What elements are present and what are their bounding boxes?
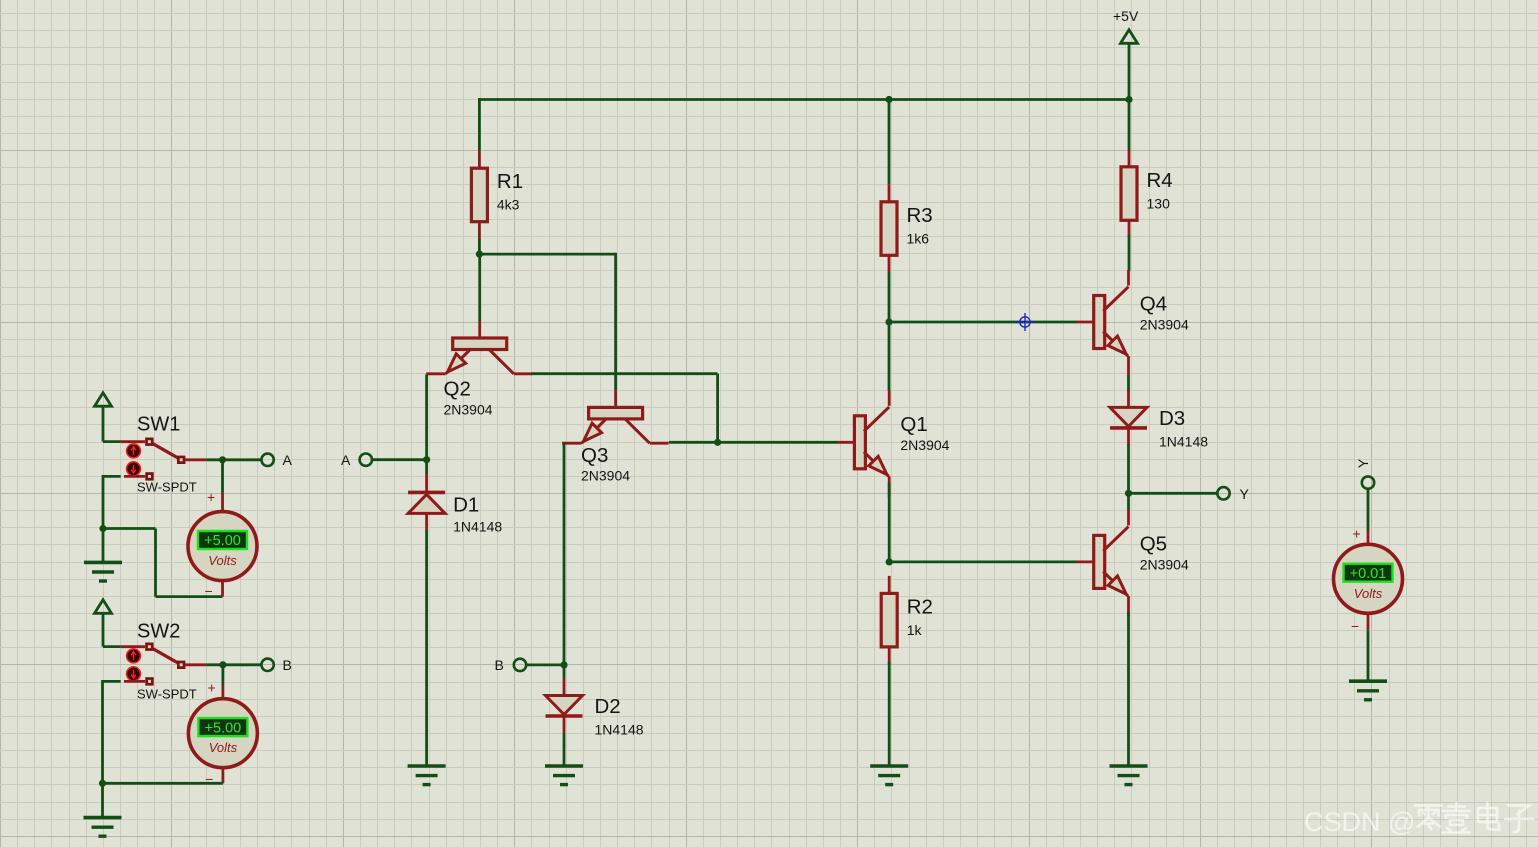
wire SW2 lower throw to ground column <box>103 680 121 683</box>
svg-text:A: A <box>283 452 293 468</box>
svg-text:Q4: Q4 <box>1140 293 1167 316</box>
wire down to base node junction <box>716 374 719 443</box>
ground under D2 <box>545 766 583 785</box>
svg-text:1k: 1k <box>907 622 923 638</box>
wire rail to R3 <box>888 100 891 185</box>
wire B node down to D2 <box>563 665 566 679</box>
switch SW2 SW-SPDT <box>121 621 207 702</box>
voltmeter output Y <box>1334 544 1403 613</box>
junction R1 / Q2 / Q3 base node <box>476 251 483 258</box>
terminal at right voltmeter <box>1362 476 1374 488</box>
pin meter2 minus (red) <box>221 768 224 784</box>
wire meter2 plus <box>221 665 224 685</box>
svg-text:CSDN @: CSDN @ <box>1304 807 1415 837</box>
svg-text:+: + <box>208 680 216 696</box>
junction SW2 / voltmeter2 <box>219 661 226 668</box>
wire Y node down to Q5 collector <box>1127 493 1130 510</box>
svg-text:R3: R3 <box>907 204 933 227</box>
terminal A (SW1 output) <box>261 454 273 466</box>
svg-text:Q5: Q5 <box>1140 532 1167 555</box>
svg-text:SW1: SW1 <box>137 414 180 436</box>
svg-text:2N3904: 2N3904 <box>900 437 949 453</box>
svg-text:2N3904: 2N3904 <box>581 468 630 484</box>
pin meter3 plus (red) <box>1367 530 1370 545</box>
wire node to Q3 column <box>479 253 615 256</box>
wire down to Q3 top pin <box>614 253 617 391</box>
svg-text:D3: D3 <box>1159 407 1185 430</box>
transistor Q5 <box>1076 510 1189 617</box>
svg-text:+: + <box>1353 526 1361 542</box>
svg-text:1k6: 1k6 <box>907 230 930 246</box>
pin meter2 plus (red) <box>221 685 224 699</box>
terminal Y (gate output) <box>1217 487 1229 499</box>
arrow SW2 <box>95 600 112 614</box>
svg-text:−: − <box>1351 618 1359 634</box>
wire supply to SW1 top throw <box>103 440 121 443</box>
svg-text:Q2: Q2 <box>444 378 471 401</box>
wire D2 to ground <box>563 733 566 766</box>
wire D3 to Y node <box>1127 444 1130 493</box>
wire node down to Q2 top pin <box>478 254 481 321</box>
wire meter1 return L-path <box>156 595 223 598</box>
resistor R3 1k6 <box>881 184 933 272</box>
svg-text:+: + <box>207 489 215 505</box>
wire +5V to R4 <box>1128 100 1131 151</box>
wire supply to SW2 top throw <box>103 645 121 648</box>
junction rail / R3 <box>885 96 892 103</box>
svg-text:SW2: SW2 <box>137 621 180 643</box>
wire D1 to ground <box>425 530 428 766</box>
wire node to Q4 base <box>889 321 1077 324</box>
junction B / D2 <box>560 661 567 668</box>
svg-text:+5.00: +5.00 <box>204 533 241 549</box>
junction R3 / Q1 collector / Q4 base <box>885 318 892 325</box>
junction A / D1 <box>423 456 430 463</box>
svg-text:1N4148: 1N4148 <box>453 518 502 534</box>
svg-text:Volts: Volts <box>208 553 237 568</box>
svg-text:Y: Y <box>1355 458 1371 468</box>
wire probe to meter3 <box>1367 489 1370 530</box>
svg-text:Q3: Q3 <box>581 444 608 467</box>
wire R2 to ground <box>888 662 891 766</box>
resistor R1 4k3 <box>471 151 523 240</box>
junction Q1 emitter / R2 / Q5 base <box>886 558 893 565</box>
wire SW2 ground column <box>101 680 104 818</box>
wire Q2 right leg to Q1-base node <box>531 372 717 375</box>
svg-text:Y: Y <box>1240 486 1250 502</box>
power arrow (SW1 supply) <box>95 393 112 442</box>
svg-text:B: B <box>495 657 504 673</box>
terminal B (SW2 output) <box>261 659 273 671</box>
arrow SW1 <box>95 393 112 407</box>
svg-text:1N4148: 1N4148 <box>595 722 644 738</box>
wire node to Q5 base <box>889 561 1076 564</box>
svg-text:A: A <box>341 452 351 468</box>
junction SW1 / voltmeter1 <box>219 456 226 463</box>
svg-text:2N3904: 2N3904 <box>444 402 493 418</box>
power arrow (SW2 supply) <box>95 600 112 647</box>
svg-text:Volts: Volts <box>209 740 238 755</box>
svg-text:+5V: +5V <box>1113 8 1139 24</box>
junction Q2/Q3 legs to Q1 base <box>714 439 721 446</box>
wire meter1 plus <box>221 460 224 493</box>
wire Q4 emitter to D3 <box>1127 376 1130 393</box>
junction SW2 gnd / meter2 return <box>99 780 106 787</box>
pin meter1 plus (red) <box>221 493 224 512</box>
svg-text:R1: R1 <box>497 170 523 193</box>
svg-text:SW-SPDT: SW-SPDT <box>137 687 197 702</box>
wire Q1 emitter down to R2 node <box>888 483 891 562</box>
diode D1 <box>408 473 502 534</box>
transistor Q2 <box>426 321 533 418</box>
svg-text:Q1: Q1 <box>900 413 927 436</box>
resistor R2 1k <box>881 576 933 665</box>
svg-text:+0.01: +0.01 <box>1350 566 1387 582</box>
ground right voltmeter <box>1349 681 1387 700</box>
junction D3 / Q5 collector / Y <box>1125 490 1132 497</box>
wire +5V top rail <box>479 98 1129 101</box>
svg-text:R4: R4 <box>1147 169 1173 192</box>
svg-text:4k3: 4k3 <box>497 197 520 213</box>
svg-text:R2: R2 <box>907 595 933 618</box>
wire R3 to collector node <box>888 273 891 323</box>
switch SW1 SW-SPDT <box>121 414 207 495</box>
wire SW1 ground column <box>102 475 105 562</box>
wire SW1 lower throw to ground column <box>103 475 121 478</box>
wire R1 top vertical <box>478 98 481 151</box>
junction +5V rail / R4 <box>1125 96 1132 103</box>
resistor R4 130 <box>1121 149 1173 238</box>
wire meter2 return <box>103 782 223 785</box>
power arrow +5V <box>1121 30 1138 44</box>
wire R1 bottom to node <box>478 239 481 254</box>
voltmeter SW1 <box>188 512 257 581</box>
watermark chinese glyphs <box>1415 806 1442 830</box>
svg-text:D2: D2 <box>595 695 621 718</box>
wire node down to Q1 collector <box>888 322 891 391</box>
diode D3 <box>1110 390 1208 449</box>
ground SW1 <box>84 562 122 581</box>
wire Q3 emitter down (B column) <box>563 442 566 665</box>
wire meter3 to ground <box>1367 631 1370 681</box>
terminal A (gate input) <box>360 454 372 466</box>
svg-text:2N3904: 2N3904 <box>1140 317 1189 333</box>
transistor Q4 <box>1076 270 1189 377</box>
voltmeter SW2 <box>188 699 257 768</box>
origin marker (blue) <box>1016 313 1034 331</box>
wire Q2 emitter down (A column) <box>425 374 428 459</box>
svg-text:+5.00: +5.00 <box>205 720 242 736</box>
junction SW1 gnd / meter1 return <box>99 525 106 532</box>
diode D2 <box>546 679 644 738</box>
watermark CSDN <box>1304 807 1415 837</box>
svg-text:B: B <box>283 657 292 673</box>
power +5V symbol <box>1113 8 1139 100</box>
svg-text:130: 130 <box>1147 195 1171 211</box>
ground under Q5 <box>1110 766 1148 785</box>
svg-text:D1: D1 <box>453 493 479 516</box>
transistor Q1 <box>837 390 950 497</box>
ground under R2 <box>870 766 908 785</box>
svg-text:Volts: Volts <box>1354 586 1383 601</box>
wire Q5 emitter to ground <box>1127 612 1130 766</box>
wire B terminal to D2 column <box>526 664 564 667</box>
wire SW1 pole to A node <box>206 458 261 461</box>
transistor Q3 <box>562 390 669 483</box>
wire A node down to D1 <box>425 460 428 474</box>
pin meter3 minus (red) <box>1367 613 1370 631</box>
wire R4 to Q4 collector <box>1128 235 1131 271</box>
svg-text:SW-SPDT: SW-SPDT <box>137 480 197 495</box>
ground SW2 <box>84 818 122 837</box>
wire Y node to terminal <box>1129 492 1218 495</box>
ground under D1 <box>408 766 446 785</box>
wire Q3 right leg to Q1 base <box>669 441 838 444</box>
pin meter1 minus (red) <box>221 581 224 597</box>
terminal B (gate input) <box>514 659 526 671</box>
svg-text:1N4148: 1N4148 <box>1159 433 1208 449</box>
wire SW2 pole to B node <box>206 663 261 666</box>
svg-text:2N3904: 2N3904 <box>1140 556 1189 572</box>
wire A terminal to D1 column <box>372 458 427 461</box>
